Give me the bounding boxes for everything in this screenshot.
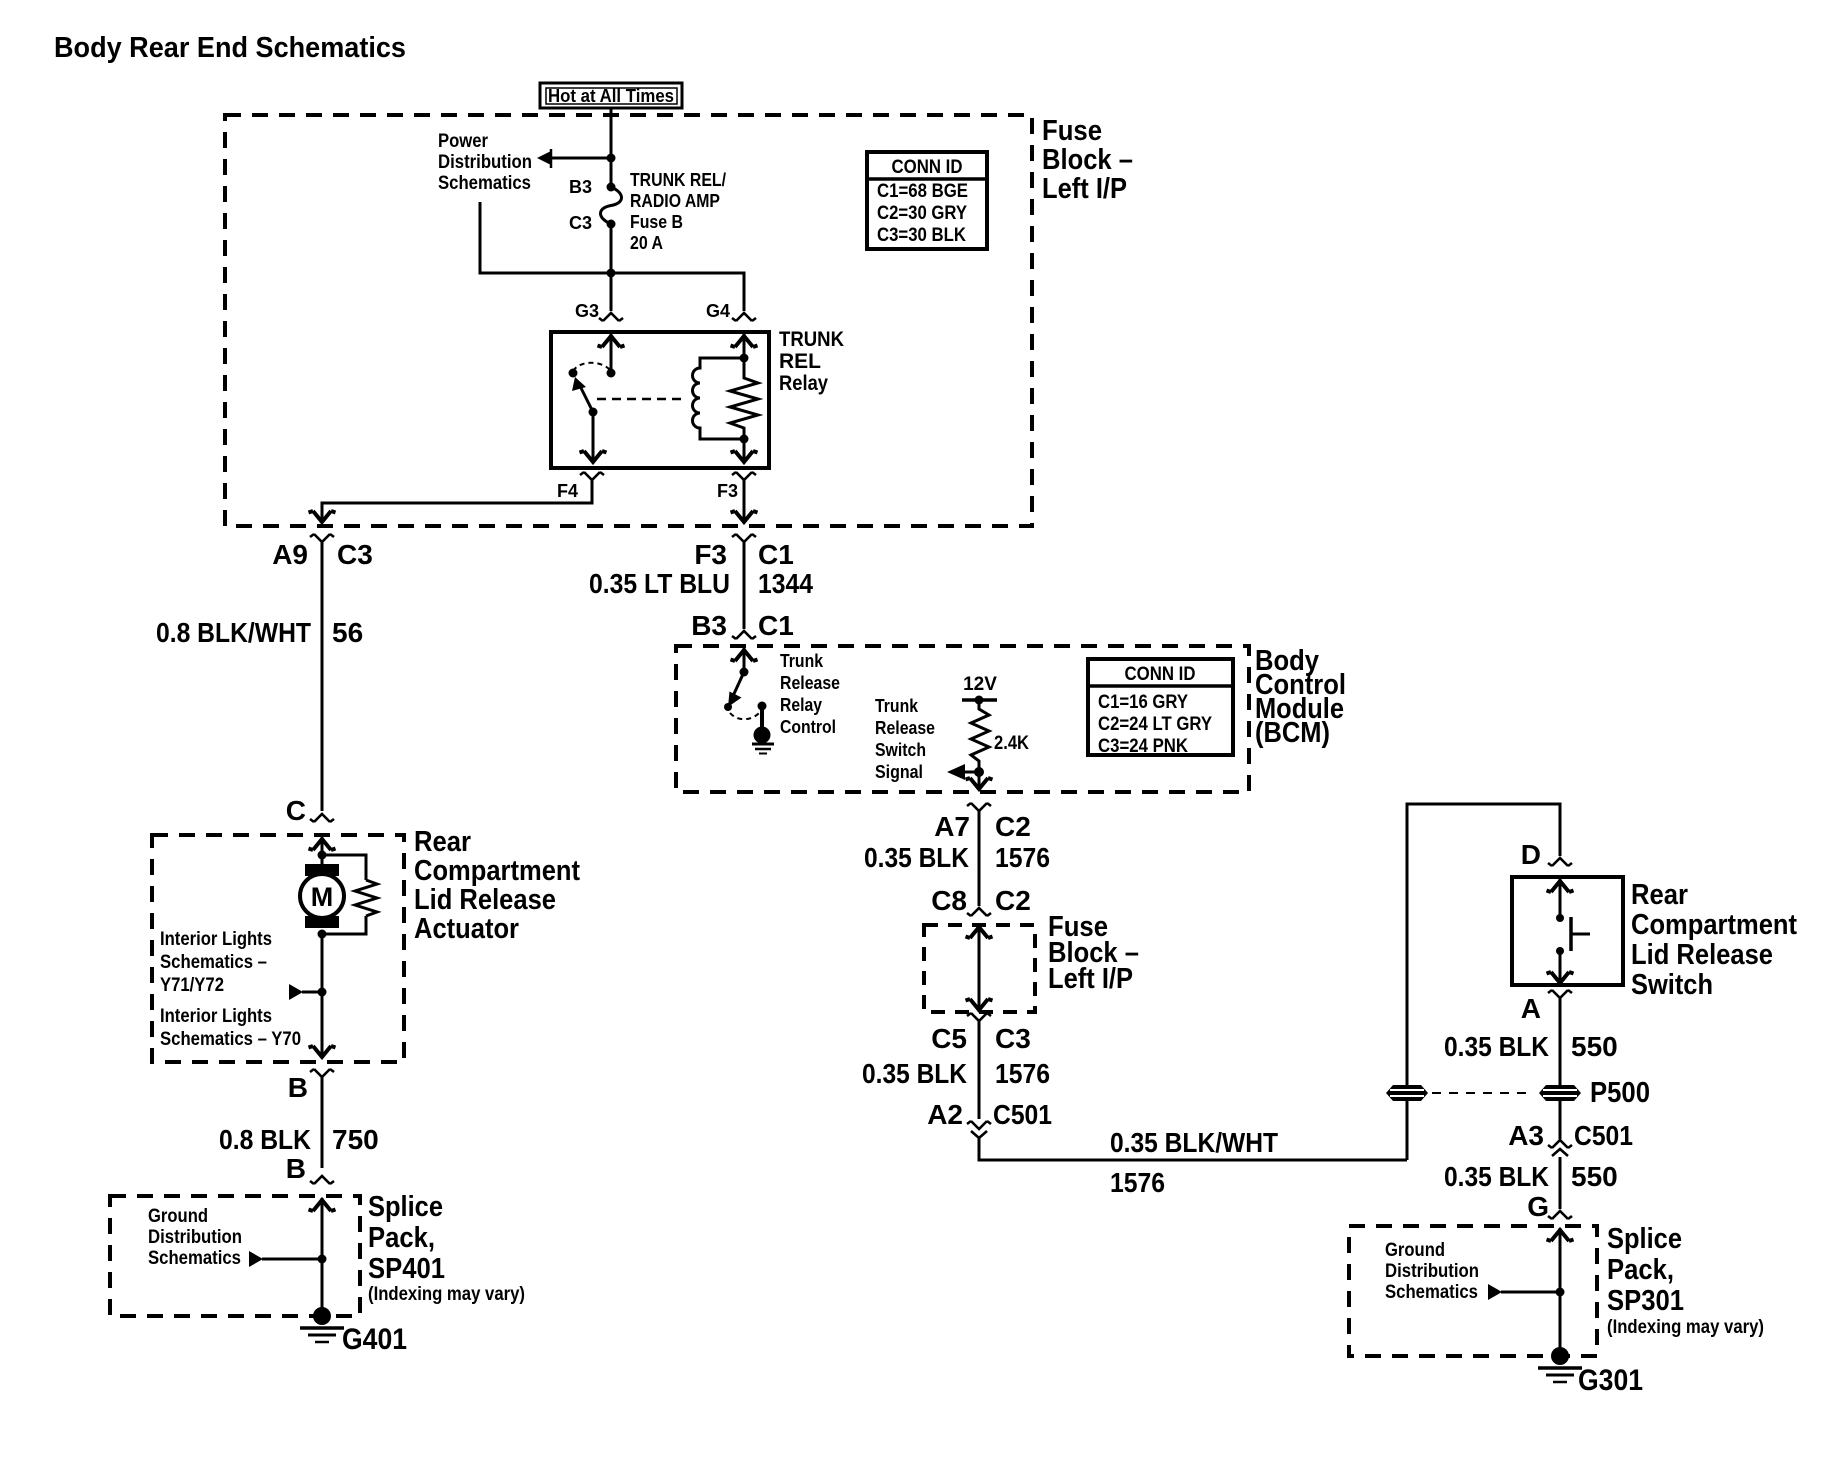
- svg-text:0.35 BLK: 0.35 BLK: [1444, 1161, 1549, 1192]
- label 0.35 LT BLU circuit 1344: [589, 568, 813, 599]
- svg-text:Relay: Relay: [780, 695, 822, 715]
- actuator dashed box: [152, 835, 404, 1062]
- BCM driver switch common node: [740, 668, 749, 677]
- connector G3 chevron: [599, 313, 623, 321]
- svg-text:20 A: 20 A: [630, 233, 663, 253]
- svg-text:0.35 BLK: 0.35 BLK: [1444, 1031, 1549, 1062]
- svg-text:D: D: [1521, 839, 1541, 870]
- wire: into SP401 with arrow: [321, 1198, 324, 1316]
- BCM solenoid: [754, 727, 771, 744]
- svg-text:Ground: Ground: [148, 1206, 208, 1227]
- svg-text:C2=24 LT GRY: C2=24 LT GRY: [1098, 714, 1212, 735]
- wire: 0.35 BLK/WHT 1576 run to right: [979, 1138, 1407, 1160]
- wire: into SP301 with arrow: [1559, 1228, 1562, 1356]
- svg-text:C2=30 GRY: C2=30 GRY: [877, 203, 967, 224]
- relay coil: [693, 358, 745, 439]
- svg-text:C501: C501: [1574, 1120, 1633, 1151]
- svg-text:C1: C1: [758, 539, 794, 570]
- ref arrow to Interior Lights Schematics Y70: [289, 984, 303, 1000]
- svg-text:Ground: Ground: [1385, 1240, 1445, 1261]
- svg-text:Trunk: Trunk: [780, 651, 824, 671]
- wire: 0.8 BLK 750: [321, 1077, 324, 1168]
- label Trunk Release Switch Signal: [875, 696, 935, 782]
- switch fixed contact top: [1556, 914, 1564, 922]
- label 0.35 BLK circuit 550 upper: [1444, 1031, 1618, 1062]
- arrow at fuse block exit F3: [731, 511, 758, 522]
- relay blade pivot node: [589, 408, 598, 417]
- label 0.35 BLK circuit 1576 lower: [862, 1058, 1050, 1089]
- P500 grommet right: [1539, 1085, 1581, 1101]
- svg-text:C1=16 GRY: C1=16 GRY: [1098, 692, 1188, 713]
- label Ground Distribution Schematics (SP301): [1385, 1240, 1479, 1303]
- ground G401 terminal: [300, 1307, 344, 1342]
- arrow at fuse block exit A9: [309, 511, 336, 522]
- node: power distribution tap junction: [607, 154, 616, 163]
- CONN ID table (BCM): [1088, 659, 1233, 757]
- svg-text:0.35 BLK: 0.35 BLK: [862, 1058, 967, 1089]
- svg-text:C501: C501: [993, 1099, 1052, 1130]
- switch exit wire with arrow: [1559, 951, 1562, 983]
- svg-text:C1=68 BGE: C1=68 BGE: [877, 181, 968, 202]
- label TRUNK REL/RADIO AMP Fuse B 20 A: [630, 170, 726, 253]
- CONN ID table (fuse block): [867, 152, 987, 249]
- svg-text:REL: REL: [779, 350, 821, 373]
- fuse block left I/P pass-through dashed box: [924, 925, 1035, 1012]
- svg-text:Pack,: Pack,: [368, 1222, 435, 1254]
- svg-text:Lid Release: Lid Release: [414, 884, 556, 916]
- node: junction below fuse: [607, 269, 616, 278]
- svg-text:CONN ID: CONN ID: [892, 157, 963, 178]
- connector A chevron: [1548, 990, 1572, 998]
- svg-text:Compartment: Compartment: [1631, 909, 1797, 941]
- wire: motor to interior lights tap: [321, 934, 324, 992]
- svg-text:SP301: SP301: [1607, 1285, 1684, 1317]
- svg-text:Schematics: Schematics: [1385, 1282, 1478, 1303]
- connector D chevron: [1548, 858, 1572, 866]
- fuse B 20A element (S-curve): [601, 187, 622, 224]
- svg-text:Splice: Splice: [1607, 1223, 1682, 1255]
- wire: 0.35 BLK 1576 upper: [978, 811, 981, 906]
- BCM internal ground symbol: [752, 744, 774, 754]
- svg-text:1576: 1576: [995, 842, 1050, 873]
- svg-text:750: 750: [332, 1124, 379, 1155]
- svg-text:A7: A7: [934, 811, 970, 842]
- svg-text:1344: 1344: [758, 568, 813, 599]
- svg-text:Distribution: Distribution: [438, 152, 532, 173]
- label Body Control Module (BCM): [1255, 645, 1346, 749]
- ref arrow to Power Distribution Schematics: [537, 149, 551, 168]
- svg-text:Control: Control: [780, 717, 836, 737]
- BCM blade end node: [724, 703, 732, 711]
- label Interior Lights Schematics Y70: [160, 1006, 301, 1050]
- wire: 0.35 BLK 550 lower: [1559, 1157, 1562, 1209]
- svg-text:Actuator: Actuator: [414, 913, 519, 945]
- svg-text:C3=24 PNK: C3=24 PNK: [1098, 736, 1188, 757]
- wire: stub to left rising: [480, 202, 611, 273]
- svg-text:Schematics – Y70: Schematics – Y70: [160, 1029, 301, 1050]
- svg-text:C3: C3: [995, 1023, 1031, 1054]
- connector F3 chevron: [732, 472, 756, 480]
- node: switch signal junction: [974, 767, 984, 777]
- body control module dashed box: [676, 646, 1249, 792]
- svg-text:0.35 BLK: 0.35 BLK: [864, 842, 969, 873]
- svg-text:0.8 BLK/WHT: 0.8 BLK/WHT: [156, 617, 311, 648]
- svg-text:C8: C8: [931, 885, 967, 916]
- svg-text:Switch: Switch: [1631, 969, 1713, 1001]
- svg-text:Left I/P: Left I/P: [1048, 963, 1133, 995]
- node: motor top junction: [318, 851, 327, 860]
- label 0.8 BLK/WHT circuit 56: [156, 617, 363, 648]
- svg-text:C3: C3: [569, 213, 592, 233]
- connector B chevron below actuator: [310, 1069, 334, 1077]
- connector F4 chevron: [580, 472, 604, 480]
- svg-text:1576: 1576: [1110, 1167, 1165, 1198]
- label Splice Pack SP301: [1607, 1223, 1764, 1338]
- relay coil output wire to F3 with arrow: [743, 439, 746, 462]
- svg-text:A3: A3: [1508, 1120, 1544, 1151]
- wire: 0.35 LT BLU 1344: [743, 542, 746, 629]
- connector A9/C3 chevron: [310, 534, 334, 542]
- pin B3 of fuse: [607, 183, 616, 192]
- connector F3/C1 chevron: [732, 534, 756, 542]
- svg-text:M: M: [311, 882, 334, 912]
- wire: F3 down to fuse block border: [743, 480, 746, 520]
- svg-text:Rear: Rear: [414, 826, 471, 858]
- pin C3 of fuse: [607, 220, 616, 229]
- wire: junction down to G3: [610, 273, 613, 311]
- label 0.35 BLK circuit 1576 upper: [864, 842, 1050, 873]
- label Splice Pack SP401: [368, 1191, 525, 1305]
- svg-text:F3: F3: [717, 481, 738, 501]
- label Fuse Block - Left I/P: [1042, 115, 1133, 205]
- svg-text:Release: Release: [780, 673, 840, 693]
- connector A2/C501 double chevron: [967, 1121, 991, 1138]
- connector C8/C2 chevron: [967, 908, 991, 916]
- svg-text:Y71/Y72: Y71/Y72: [160, 975, 224, 996]
- svg-text:Rear: Rear: [1631, 879, 1688, 911]
- switch fixed contact bottom: [1556, 947, 1564, 955]
- svg-text:(BCM): (BCM): [1255, 717, 1330, 749]
- P500 dashed pairing link: [1432, 1092, 1534, 1094]
- relay fixed contact node: [569, 369, 578, 378]
- relay: TRUNK REL Relay box: [551, 332, 769, 468]
- connector G chevron: [1548, 1211, 1572, 1219]
- svg-text:0.35 LT BLU: 0.35 LT BLU: [589, 568, 730, 599]
- relay contact travel dashed arc: [573, 363, 611, 371]
- BCM solenoid stem: [760, 706, 764, 728]
- svg-text:CONN ID: CONN ID: [1125, 664, 1196, 685]
- relay switched output wire to F4 with arrow: [592, 412, 595, 462]
- label Rear Compartment Lid Release Actuator: [414, 826, 580, 945]
- svg-text:F3: F3: [694, 539, 727, 570]
- rear compartment lid release switch box: [1512, 877, 1623, 985]
- label Interior Lights Schematics Y71/Y72: [160, 929, 272, 996]
- svg-text:Release: Release: [875, 718, 935, 738]
- wire: actuator entry with arrow: [321, 837, 324, 864]
- svg-text:Block –: Block –: [1042, 144, 1133, 176]
- splice pack SP301 dashed box: [1349, 1226, 1597, 1356]
- ref arrow to Ground Distribution Schematics (SP401): [249, 1251, 263, 1267]
- svg-text:2.4K: 2.4K: [994, 733, 1029, 754]
- svg-text:Schematics: Schematics: [148, 1248, 241, 1269]
- svg-text:0.35 BLK/WHT: 0.35 BLK/WHT: [1110, 1127, 1278, 1158]
- label Rear Compartment Lid Release Switch: [1631, 879, 1797, 1001]
- svg-text:G3: G3: [575, 301, 599, 321]
- svg-text:550: 550: [1571, 1161, 1618, 1192]
- connector G4 chevron: [732, 313, 756, 321]
- svg-text:Left I/P: Left I/P: [1042, 173, 1127, 205]
- svg-text:Interior Lights: Interior Lights: [160, 1006, 272, 1027]
- svg-text:C1: C1: [758, 610, 794, 641]
- connector C chevron: [310, 814, 334, 822]
- svg-text:Schematics –: Schematics –: [160, 952, 267, 973]
- relay common contact node: [607, 369, 616, 378]
- svg-text:B3: B3: [569, 177, 592, 197]
- node: SP301 splice junction: [1556, 1288, 1565, 1297]
- connector C5/C3 chevron: [967, 1013, 991, 1021]
- label Trunk Release Relay Control: [780, 651, 840, 737]
- svg-text:RADIO AMP: RADIO AMP: [630, 191, 720, 211]
- connector A7/C2 chevron: [967, 803, 991, 811]
- svg-text:(Indexing may vary): (Indexing may vary): [1607, 1317, 1764, 1338]
- BCM entry wire with arrow: [743, 648, 746, 672]
- svg-text:C: C: [286, 795, 306, 826]
- wire: actuator exit with arrow: [321, 992, 324, 1055]
- pass-through wire with arrows: [978, 925, 981, 1012]
- node: SP401 splice junction: [318, 1255, 327, 1264]
- svg-text:56: 56: [332, 617, 363, 648]
- svg-text:Switch: Switch: [875, 740, 926, 760]
- signal branch arrow to Trunk Release Switch Signal: [947, 764, 979, 780]
- svg-text:F4: F4: [557, 481, 578, 501]
- svg-text:550: 550: [1571, 1031, 1618, 1062]
- wire: junction to G4 branch: [611, 273, 744, 311]
- wire: below P500 to C501: [1559, 1101, 1562, 1139]
- Hot at All Times power tag: [540, 83, 682, 108]
- pull-up resistor 2.4K: [971, 700, 989, 766]
- ref arrow to Ground Distribution Schematics (SP301): [1488, 1284, 1502, 1300]
- svg-text:A: A: [1521, 993, 1541, 1024]
- svg-text:B: B: [288, 1072, 308, 1103]
- wire: BCM exit with arrow: [978, 766, 981, 787]
- relay coil feed wire from G4 with arrow: [743, 334, 746, 358]
- svg-text:(Indexing may vary): (Indexing may vary): [368, 1284, 525, 1305]
- wire: 0.35 BLK 550 upper: [1559, 998, 1562, 1085]
- svg-text:G4: G4: [706, 301, 730, 321]
- svg-text:Pack,: Pack,: [1607, 1254, 1674, 1286]
- label 0.8 BLK circuit 750: [219, 1124, 379, 1155]
- label 0.35 BLK circuit 550 lower: [1444, 1161, 1618, 1192]
- svg-text:Interior Lights: Interior Lights: [160, 929, 272, 950]
- BCM contact travel dashed arc: [730, 712, 760, 719]
- svg-text:G401: G401: [342, 1323, 407, 1356]
- svg-text:Lid Release: Lid Release: [1631, 939, 1773, 971]
- connector B chevron at splice pack: [310, 1176, 334, 1184]
- svg-text:Power: Power: [438, 131, 489, 152]
- switch entry wire with arrow: [1559, 879, 1562, 918]
- svg-text:Trunk: Trunk: [875, 696, 919, 716]
- ground G301 terminal: [1538, 1347, 1582, 1382]
- svg-text:12V: 12V: [963, 674, 997, 695]
- svg-text:Distribution: Distribution: [148, 1227, 242, 1248]
- connector B3/C1 chevron: [732, 631, 756, 639]
- 12V supply rail bar: [962, 698, 997, 702]
- label TRUNK REL Relay: [779, 328, 844, 395]
- relay actuation dashed link: [597, 398, 683, 401]
- svg-text:Fuse: Fuse: [1042, 115, 1102, 147]
- label Ground Distribution Schematics (SP401): [148, 1206, 242, 1269]
- BCM fixed contact node: [758, 702, 767, 711]
- node: coil bottom junction: [740, 435, 749, 444]
- svg-text:Splice: Splice: [368, 1191, 443, 1223]
- svg-text:B: B: [286, 1153, 306, 1184]
- svg-text:Body Rear End Schematics: Body Rear End Schematics: [54, 32, 406, 64]
- P500 grommet left: [1386, 1085, 1428, 1101]
- switch pushbutton actuator: [1571, 917, 1590, 951]
- svg-text:Signal: Signal: [875, 762, 923, 782]
- fuse block - left I/P dashed box: [225, 115, 1032, 526]
- svg-text:C3=30 BLK: C3=30 BLK: [877, 225, 966, 246]
- wire: fuse output down to junction: [610, 224, 613, 273]
- svg-text:1576: 1576: [995, 1058, 1050, 1089]
- label Power Distribution Schematics: [438, 131, 532, 194]
- motor M (rear lid release): [300, 864, 344, 928]
- svg-text:TRUNK REL/: TRUNK REL/: [630, 170, 726, 190]
- svg-text:G301: G301: [1578, 1364, 1643, 1397]
- wire: F4 down-left to A9: [322, 480, 592, 520]
- svg-text:C5: C5: [931, 1023, 967, 1054]
- relay switch blade with arrow: [572, 377, 593, 412]
- connector A3/C501 double chevron: [1548, 1140, 1572, 1156]
- wire: feed from Hot at All Times down: [610, 108, 613, 190]
- node: coil top junction: [740, 354, 749, 363]
- wire: riser through P500 to switch feed: [1407, 804, 1560, 1160]
- svg-text:Distribution: Distribution: [1385, 1261, 1479, 1282]
- label 0.35 BLK/WHT circuit 1576: [1110, 1127, 1278, 1198]
- svg-text:0.8 BLK: 0.8 BLK: [219, 1124, 311, 1155]
- svg-text:Compartment: Compartment: [414, 855, 580, 887]
- node: 12V tap: [975, 696, 984, 705]
- svg-text:C3: C3: [337, 539, 373, 570]
- label Fuse Block - Left I/P (pass-through): [1048, 911, 1139, 995]
- svg-text:P500: P500: [1590, 1077, 1650, 1109]
- node: interior lights tap junction: [318, 988, 327, 997]
- wire: branch to Power Distribution Schematics: [551, 157, 611, 160]
- svg-text:TRUNK: TRUNK: [779, 328, 844, 351]
- svg-text:Relay: Relay: [779, 372, 828, 395]
- motor shunt resistor branch: [322, 855, 366, 880]
- wire: 0.35 BLK 1576 lower: [978, 1021, 981, 1119]
- relay internal resistor: [730, 358, 758, 439]
- wire: 0.8 BLK/WHT 56: [321, 542, 324, 811]
- svg-text:Hot at All Times: Hot at All Times: [548, 86, 674, 106]
- splice pack SP401 dashed box: [110, 1196, 360, 1316]
- svg-text:SP401: SP401: [368, 1253, 445, 1285]
- node: motor bottom junction: [318, 930, 327, 939]
- BCM driver switch blade with arrow: [728, 672, 744, 707]
- svg-text:G: G: [1527, 1191, 1549, 1222]
- svg-text:A9: A9: [272, 539, 308, 570]
- svg-text:C2: C2: [995, 885, 1031, 916]
- svg-text:C2: C2: [995, 811, 1031, 842]
- relay pin 30 wire from G3 with arrow: [610, 334, 613, 373]
- svg-text:Schematics: Schematics: [438, 173, 531, 194]
- svg-text:A2: A2: [927, 1099, 963, 1130]
- svg-text:B3: B3: [691, 610, 727, 641]
- svg-text:Fuse B: Fuse B: [630, 212, 683, 232]
